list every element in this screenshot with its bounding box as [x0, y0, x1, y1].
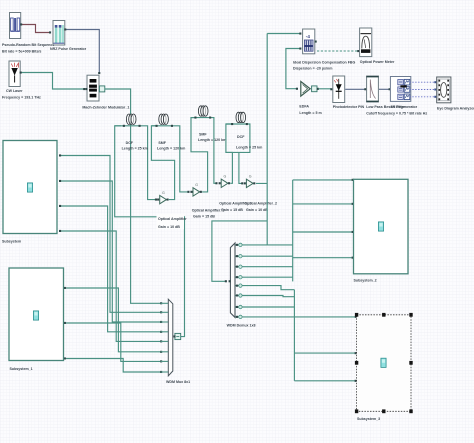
wire: SMF_1 span top edge: [151, 126, 188, 192]
svg-text:Optical Power Meter: Optical Power Meter: [360, 60, 395, 64]
wire: bus to Subsystem_2 in3: [293, 231, 352, 233]
label: PRBS: [2, 43, 54, 54]
wire: Subsystem out4 to Mux in5: [60, 231, 161, 341]
svg-text:EDFA: EDFA: [299, 104, 309, 108]
label: Low Pass Bessel Filter: [366, 105, 427, 115]
svg-text:Photodetector PIN: Photodetector PIN: [333, 105, 365, 109]
wire: 3R to Eye dashed 2: [409, 89, 434, 91]
component: EDFA: [301, 82, 319, 97]
label: amp4: [244, 202, 277, 212]
component: NRZ Pulse Generator: [53, 21, 66, 46]
wire: FBG port 2 to EDFA: [286, 49, 300, 89]
wire: Demux out1 to bus: [235, 244, 292, 246]
wire: 3R to Eye dashed 1: [409, 81, 434, 83]
svg-text:Subsystem_2: Subsystem_2: [354, 279, 377, 283]
svg-text:Optical Amplifier: Optical Amplifier: [158, 217, 187, 221]
svg-text:Bit rate = 5e+009 Bits/s: Bit rate = 5e+009 Bits/s: [2, 50, 41, 54]
component: Eye Diagram Analyzer: [437, 77, 451, 103]
label: SMF 2: [198, 133, 226, 143]
wire: Demux out8 to Subsystem_3 in1: [235, 316, 355, 318]
svg-text:Cutoff frequency = 0.75 * Bit: Cutoff frequency = 0.75 * Bit rate Hz: [366, 112, 427, 116]
wire: DCF_1 span top edge: [115, 126, 156, 200]
wire: EDFA to Photodetector PIN: [318, 88, 330, 90]
label: CW Laser: [2, 89, 41, 99]
wire: 3R to Eye dashed 3: [409, 96, 434, 98]
wire: Subsystem_1 out1 to Mux in6: [65, 288, 161, 352]
svg-text:-4: -4: [306, 34, 311, 39]
svg-text:Eye Diagram Analyzer: Eye Diagram Analyzer: [437, 106, 474, 110]
wire: Demux out3 to bus: [235, 266, 292, 268]
svg-text:Gain = 15 dB: Gain = 15 dB: [193, 214, 215, 218]
component: CW Laser: [9, 61, 22, 87]
wire: PRBS to NRZ: [21, 25, 50, 33]
svg-text:Length = 5 m: Length = 5 m: [299, 111, 321, 115]
svg-text:G: G: [195, 183, 198, 187]
label: EDFA: [299, 104, 321, 115]
amplifier: Optical Amplifier_2 (amp4): [244, 175, 256, 188]
svg-text:3R Regenerator: 3R Regenerator: [390, 105, 417, 109]
svg-text:Length = 120 km: Length = 120 km: [157, 147, 185, 151]
wire: Subsystem_1 out2 to Mux in7: [65, 323, 161, 361]
wire: CW Laser to MZM: [21, 73, 84, 90]
amplifier: Optical Amplifier_3 (amp3): [219, 175, 231, 188]
wire: bus vertical (Subsystem_2 feed): [292, 180, 294, 282]
wire: Bessel to 3R Regenerator: [379, 88, 389, 90]
component: Subsystem_3 (selected): [355, 313, 413, 413]
svg-text:Gain = 10 dB: Gain = 10 dB: [246, 208, 268, 212]
wire: lower bus to Subsystem_3 in3: [294, 380, 355, 382]
wire: amp2 out up to SMF_2: [191, 118, 208, 192]
wire: Demux out5 to lower bus: [235, 286, 294, 290]
wire: bus to Subsystem_2 in2: [293, 203, 352, 205]
wire: Mux output up to DCF loop input: [115, 126, 185, 337]
svg-text:WDM Mux 8x1: WDM Mux 8x1: [166, 380, 190, 384]
wire: NRZ to MZM electrical: [65, 30, 99, 74]
label: amp3: [219, 202, 252, 212]
component: Pseudo-Random Bit Sequence Generator: [10, 13, 23, 39]
wire: Demux out6 to lower bus: [235, 296, 294, 297]
wire: MZM output down to WDM Mux input 1: [105, 89, 161, 303]
svg-text:Length = 25 km: Length = 25 km: [236, 145, 262, 149]
wire: amp4 out riser to FBG and down to demux tap: [256, 34, 267, 245]
wire: amp3 out up to DCF_2: [226, 124, 233, 183]
fiber: DCF coil 2: [231, 112, 248, 125]
label: amp1: [157, 214, 188, 230]
svg-text:Gain = 10 dB: Gain = 10 dB: [158, 225, 180, 229]
wire: FBG dashed to Optical Power Meter: [317, 50, 358, 52]
label: SMF 1: [157, 141, 185, 151]
wire: amp1 out up to SMF_1: [151, 126, 174, 200]
wire: Subsystem_1 out3 to Mux in8: [65, 359, 161, 373]
wire: SMF_2 span top edge: [191, 118, 216, 184]
svg-text:Length = 25 km: Length = 25 km: [122, 147, 148, 151]
component: 3R Regenerator: [390, 77, 410, 102]
svg-text:CW Laser: CW Laser: [6, 89, 23, 93]
port: Mux output connector icon: [175, 333, 181, 339]
svg-text:G: G: [162, 191, 165, 195]
label: DCF 2: [236, 135, 262, 149]
wire: tap down to WDM Demux input: [212, 221, 267, 281]
label: amp2: [192, 209, 225, 219]
amplifier: Optical Amplifier_1 (amp2): [190, 183, 202, 196]
wire: lower bus vertical (Subsystem_3 feed): [293, 290, 295, 381]
wire: DCF_2 span top edge and bottom: [226, 124, 250, 152]
component: WDM Demux 1x8: [229, 243, 235, 317]
wire: lower bus to Subsystem_3 in2: [294, 352, 355, 354]
component: WDM Mux 8x1: [161, 299, 176, 376]
component: Optical Power Meter: [360, 28, 372, 57]
component: Photodetector PIN: [333, 76, 345, 103]
svg-text:Subsystem_3: Subsystem_3: [357, 417, 380, 421]
svg-text:SMF: SMF: [199, 133, 207, 137]
svg-text:Ideal Dispersion Compensation: Ideal Dispersion Compensation FBG: [293, 60, 356, 64]
svg-text:Pseudo-Random Bit Sequence: Pseudo-Random Bit Sequence: [2, 43, 54, 47]
wire: Demux out7 to lower bus: [235, 306, 294, 308]
component: Subsystem_2: [354, 179, 409, 273]
label: DCF 1: [122, 141, 148, 151]
svg-text:NRZ Pulse Generator: NRZ Pulse Generator: [50, 47, 87, 51]
svg-text:Optical Amplifier_1: Optical Amplifier_1: [192, 209, 225, 213]
svg-text:Gain = 15 dB: Gain = 15 dB: [221, 208, 243, 212]
component: Subsystem_1: [9, 268, 64, 361]
wire: DCF_2 to amp4: [239, 152, 242, 183]
wire: bus to Subsystem_2 in4: [293, 257, 352, 259]
amplifier: Optical Amplifier (amp1): [157, 191, 169, 204]
fiber: DCF coil 1: [123, 114, 141, 127]
component: Mach-Zehnder Modulator: [85, 75, 99, 101]
svg-text:G: G: [224, 175, 227, 179]
svg-text:Mach-Zehnder Modulator_1: Mach-Zehnder Modulator_1: [82, 105, 129, 109]
svg-text:DCF: DCF: [237, 135, 245, 139]
component: Subsystem: [3, 141, 57, 234]
svg-text:DCF: DCF: [126, 141, 134, 145]
svg-text:Subsystem: Subsystem: [2, 239, 21, 243]
wire: Demux out4 to bus: [235, 276, 292, 278]
svg-text:Frequency = 193.1 THz: Frequency = 193.1 THz: [2, 95, 41, 99]
component: Ideal Dispersion Compensation FBG: [303, 29, 317, 54]
svg-text:Optical Amplifier_2: Optical Amplifier_2: [244, 202, 277, 206]
component: Low Pass Bessel Filter: [366, 76, 378, 102]
wire: into FBG input 1: [267, 33, 300, 35]
svg-text:G: G: [249, 175, 252, 179]
port: MZM output: [99, 86, 104, 92]
wire: PIN to Low Pass Bessel Filter: [345, 88, 365, 90]
wire: Subsystem out1 to Mux in2: [60, 156, 161, 313]
label: FBG: [293, 60, 356, 70]
fiber: SMF coil 1: [156, 114, 174, 127]
svg-text:Dispersion = -20 ps/nm: Dispersion = -20 ps/nm: [293, 67, 332, 71]
wire: bus to Subsystem_2 in1: [293, 179, 352, 181]
svg-text:WDM Demux 1x8: WDM Demux 1x8: [227, 324, 256, 328]
svg-text:Length = 120 km: Length = 120 km: [198, 138, 226, 142]
wire: Demux out2 to bus: [235, 255, 292, 257]
wire: Subsystem out2 to Mux in3: [60, 181, 161, 322]
fiber: SMF coil 2: [194, 106, 211, 119]
svg-text:Subsystem_1: Subsystem_1: [10, 367, 33, 371]
svg-text:SMF: SMF: [158, 141, 166, 145]
wire: Subsystem out3 to Mux in4: [60, 206, 161, 332]
